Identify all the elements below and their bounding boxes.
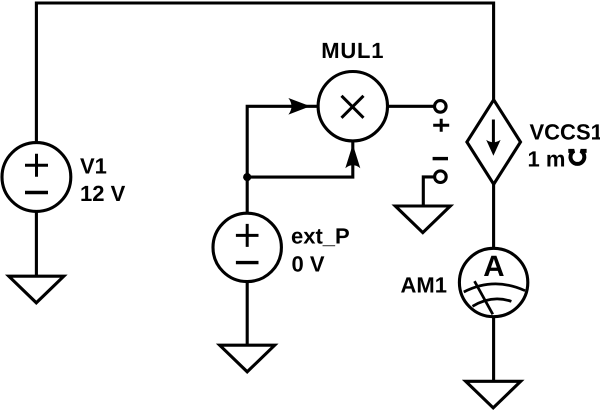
- wire ext_P to ground: [246, 282, 249, 346]
- ground under V1: [9, 276, 64, 303]
- svg-text:12 V: 12 V: [80, 181, 126, 206]
- svg-text:AM1: AM1: [401, 273, 447, 298]
- ground under AM1: [466, 381, 521, 408]
- wire terminal to ground: [423, 177, 434, 206]
- arrow into MUL1 left input: [288, 98, 310, 115]
- svg-text:MUL1: MUL1: [321, 38, 384, 63]
- svg-text:V1: V1: [80, 153, 107, 178]
- voltage source V1: [2, 143, 71, 212]
- wire V1 to ground: [35, 211, 38, 276]
- ground under ext_P: [220, 345, 275, 372]
- junction node: [243, 173, 251, 181]
- ammeter AM1: [459, 248, 527, 316]
- svg-text:1 m: 1 m: [528, 146, 566, 171]
- svg-text:ext_P: ext_P: [291, 224, 350, 249]
- voltage source ext_P: [213, 213, 281, 281]
- wire VCCS1 to AM1: [492, 184, 495, 248]
- wire AM1 to ground: [492, 316, 495, 381]
- minus label: [433, 157, 448, 160]
- svg-text:VCCS1: VCCS1: [530, 120, 600, 145]
- multiplier MUL1: [318, 72, 387, 141]
- wire junction to MUL1 Y input: [247, 141, 353, 177]
- svg-text:0 V: 0 V: [292, 251, 325, 276]
- plus label: [433, 119, 449, 132]
- current source VCCS1: [467, 100, 521, 184]
- terminal minus: [435, 171, 447, 183]
- mho symbol: [568, 151, 586, 164]
- svg-text:A: A: [483, 250, 504, 283]
- arrow into MUL1 bottom input: [345, 144, 360, 168]
- wire top bus from V1 to VCCS1: [36, 3, 493, 143]
- ground under terminal: [395, 206, 450, 233]
- wire junction branch up to MUL1 X input: [247, 106, 318, 213]
- wire MUL1 output to terminal: [388, 105, 435, 108]
- terminal plus: [435, 101, 447, 113]
